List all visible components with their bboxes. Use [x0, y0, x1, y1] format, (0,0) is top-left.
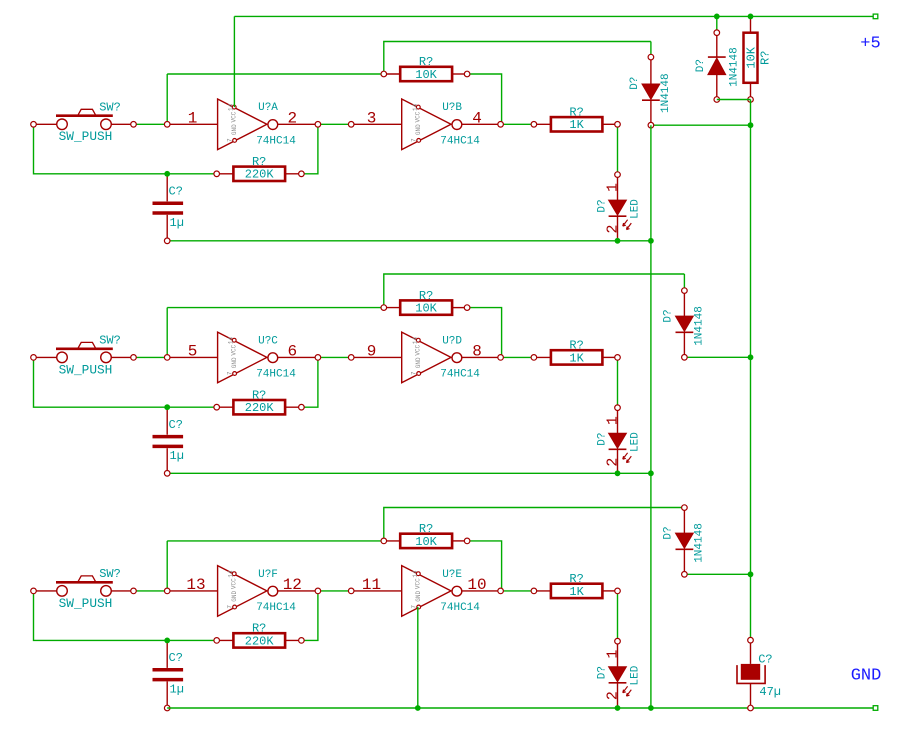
junction +5 rail / diode column	[714, 14, 720, 20]
svg-text:10K: 10K	[415, 302, 437, 316]
capacitor C? 1µ row3	[153, 640, 184, 710]
wire row1: diode D? bottom to right bus	[651, 124, 751, 126]
svg-text:10K: 10K	[415, 535, 437, 549]
wire vertical bus (LED cathode bus)	[650, 125, 652, 708]
junction row1: RC node	[164, 171, 170, 177]
svg-text:C?: C?	[758, 653, 772, 667]
svg-text:U?B: U?B	[442, 102, 462, 114]
junction row2: diode bottom to right bus	[748, 354, 754, 360]
junction row3: diode bottom to right bus	[748, 571, 754, 577]
junction +5 rail / 10K column	[748, 14, 754, 20]
svg-text:14: 14	[412, 103, 419, 111]
resistor R? 220K row3	[214, 622, 304, 649]
svg-text:VCC: VCC	[415, 111, 422, 122]
pin number 1 (LED row1 anode)	[605, 183, 622, 192]
pin number 2 (LED row1 cathode)	[605, 224, 622, 233]
pin number 1 (LED row3 anode)	[605, 650, 622, 659]
svg-text:2: 2	[287, 109, 297, 127]
wire U?E GND pin to GND rail	[417, 607, 419, 708]
svg-text:+5: +5	[860, 35, 880, 54]
diode D? 1N4148 row2 (steering)	[662, 288, 705, 360]
svg-text:1: 1	[188, 109, 198, 127]
svg-text:2: 2	[605, 224, 622, 233]
inverter U?D 74HC14	[348, 332, 503, 383]
wire +5 rail	[234, 15, 875, 17]
svg-text:2: 2	[605, 691, 622, 700]
svg-text:SW?: SW?	[99, 334, 121, 348]
svg-text:LED: LED	[630, 199, 642, 219]
wire row1: 10K right pin to gate2 output node	[467, 74, 502, 124]
capacitor C? 47µ (electrolytic)	[737, 637, 781, 710]
svg-text:GND: GND	[231, 591, 238, 602]
svg-text:C?: C?	[169, 651, 183, 665]
resistor R? 10K row1	[381, 55, 470, 82]
inverter U?F 74HC14	[164, 566, 320, 617]
pin number 3 (U?B input)	[367, 109, 377, 127]
svg-text:74HC14: 74HC14	[440, 136, 480, 148]
LED D? row2	[597, 405, 642, 473]
svg-text:U?E: U?E	[442, 569, 462, 581]
svg-text:R?: R?	[758, 51, 772, 65]
wire GND rail	[167, 707, 875, 709]
wire vertical bus (diode bus)	[750, 125, 752, 640]
svg-text:U?A: U?A	[258, 102, 278, 114]
wire row1: feedback line down to diode D? top	[650, 42, 652, 58]
label GND	[851, 667, 882, 686]
svg-text:74HC14: 74HC14	[256, 369, 296, 381]
diode D? 1N4148 row3 (steering)	[662, 505, 705, 577]
svg-text:7: 7	[226, 138, 233, 142]
svg-text:1µ: 1µ	[170, 449, 184, 463]
svg-text:74HC14: 74HC14	[440, 602, 480, 614]
svg-text:1µ: 1µ	[170, 682, 184, 696]
svg-text:7: 7	[410, 371, 417, 375]
wire row2: diode D? bottom to right bus	[684, 356, 750, 358]
svg-text:D?: D?	[597, 199, 609, 212]
svg-text:D?: D?	[629, 77, 641, 90]
svg-text:14: 14	[412, 337, 419, 345]
svg-text:GND: GND	[415, 124, 422, 135]
svg-text:SW_PUSH: SW_PUSH	[59, 129, 113, 144]
svg-text:1N4148: 1N4148	[693, 523, 705, 563]
svg-text:7: 7	[410, 605, 417, 609]
resistor R? 1K row2	[531, 339, 620, 366]
svg-text:1N4148: 1N4148	[693, 306, 705, 346]
wire row3: gate1 output to gate2 input	[318, 590, 351, 592]
svg-text:14: 14	[412, 570, 419, 578]
svg-text:1K: 1K	[569, 585, 584, 599]
svg-text:SW_PUSH: SW_PUSH	[59, 596, 113, 611]
svg-text:47µ: 47µ	[759, 685, 781, 699]
svg-text:GND: GND	[851, 667, 882, 686]
svg-text:U?F: U?F	[258, 569, 278, 581]
junction row1: diode bottom to right bus	[748, 122, 754, 128]
wire row1: gate1 output to gate2 input	[318, 123, 351, 125]
svg-text:C?: C?	[169, 418, 183, 432]
svg-text:6: 6	[287, 342, 297, 360]
svg-text:1: 1	[605, 183, 622, 192]
svg-text:14: 14	[228, 103, 235, 111]
resistor R? 1K row3	[531, 572, 620, 599]
LED D? row3	[597, 638, 642, 708]
svg-text:U?C: U?C	[258, 335, 278, 347]
svg-text:10K: 10K	[415, 68, 437, 82]
pin number 9 (U?D input)	[367, 342, 377, 360]
svg-text:2: 2	[605, 458, 622, 467]
svg-text:D?: D?	[597, 432, 609, 445]
wire row2: RC node to 220K left pin	[167, 406, 217, 408]
svg-text:3: 3	[367, 109, 377, 127]
wire row1: 10K left pin to diode feedback line	[384, 42, 651, 75]
svg-text:SW?: SW?	[99, 101, 121, 115]
diode D? 1N4148 (to +5 rail)	[695, 30, 741, 102]
svg-text:9: 9	[367, 342, 377, 360]
wire +5 rail to diode D? (pullup column)	[716, 16, 718, 32]
pin number 1 (LED row2 anode)	[605, 416, 622, 425]
svg-text:7: 7	[226, 371, 233, 375]
label +5	[860, 35, 880, 54]
svg-text:74HC14: 74HC14	[256, 602, 296, 614]
wire row2: 220K right pin up to output node	[301, 357, 318, 407]
svg-text:1: 1	[605, 416, 622, 425]
svg-text:SW_PUSH: SW_PUSH	[59, 362, 113, 377]
svg-text:1N4148: 1N4148	[660, 73, 672, 113]
svg-text:220K: 220K	[245, 168, 275, 182]
resistor R? 10K row3	[381, 522, 470, 549]
svg-text:D?: D?	[662, 526, 674, 539]
LED D? row1	[597, 172, 642, 241]
svg-text:14: 14	[228, 337, 235, 345]
pin number 12 (U?F output)	[283, 576, 302, 594]
junction GND rail / U?E GND	[415, 705, 421, 711]
pin number 11 (U?E input)	[362, 576, 381, 594]
svg-text:LED: LED	[630, 432, 642, 452]
switch SW? SW_PUSH row1	[31, 101, 137, 145]
wire row1: 10K row horizontal to 10K left pin	[167, 73, 384, 75]
svg-text:D?: D?	[662, 309, 674, 322]
wire row1: 220K right pin up to output node	[301, 124, 318, 174]
svg-text:10K: 10K	[744, 46, 758, 68]
wire row2: switch output to gate input	[134, 356, 168, 358]
resistor R? 1K row1	[531, 106, 620, 133]
svg-text:74HC14: 74HC14	[440, 369, 480, 381]
inverter U?A 74HC14	[164, 99, 320, 150]
svg-text:1K: 1K	[569, 118, 584, 132]
pin number 2 (LED row2 cathode)	[605, 458, 622, 467]
pin number 5 (U?C input)	[188, 342, 198, 360]
wire row3: 220K right pin up to output node	[301, 591, 318, 641]
svg-text:5: 5	[188, 342, 198, 360]
wire row1: gate2 output to 1K left pin	[501, 123, 534, 125]
junction row3: LED to rail	[615, 705, 621, 711]
svg-text:D?: D?	[695, 59, 707, 72]
wire row1: RC node to 220K left pin	[167, 173, 217, 175]
svg-text:GND: GND	[415, 357, 422, 368]
wire row2: feedback line down to diode D? top	[683, 274, 685, 291]
wire +5 rail end	[873, 14, 878, 19]
inverter U?E 74HC14	[348, 566, 503, 617]
wire row3: switch output to gate input	[134, 590, 168, 592]
junction row1: rail to vertical bus	[648, 238, 654, 244]
switch SW? SW_PUSH row3	[31, 567, 137, 611]
wire row3: gate2 output to 1K left pin	[501, 590, 534, 592]
resistor R? 10K (vertical, to +5)	[744, 16, 773, 102]
wire row1: bottom rail	[167, 240, 651, 242]
svg-text:13: 13	[186, 576, 205, 594]
wire row3: gate input node up to 10K row	[166, 541, 168, 591]
svg-text:VCC: VCC	[415, 578, 422, 589]
svg-text:VCC: VCC	[415, 344, 422, 355]
svg-text:GND: GND	[231, 124, 238, 135]
svg-text:GND: GND	[231, 357, 238, 368]
wire row2: gate2 output to 1K left pin	[501, 356, 534, 358]
svg-text:220K: 220K	[245, 634, 275, 648]
wire row2: 10K right pin to gate2 output node	[467, 308, 502, 358]
svg-text:1: 1	[605, 650, 622, 659]
svg-text:VCC: VCC	[231, 111, 238, 122]
pin number 6 (U?C output)	[287, 342, 297, 360]
resistor R? 10K row2	[381, 289, 470, 316]
svg-text:14: 14	[228, 570, 235, 578]
junction row2: LED to rail	[615, 470, 621, 476]
svg-text:VCC: VCC	[231, 344, 238, 355]
svg-text:10: 10	[467, 576, 486, 594]
svg-text:SW?: SW?	[99, 567, 121, 581]
wire row1: switch left to RC node	[34, 124, 168, 174]
pin number 4 (U?B output)	[472, 109, 482, 127]
svg-text:1µ: 1µ	[170, 216, 184, 230]
wire row3: switch left to RC node	[34, 591, 168, 641]
svg-text:C?: C?	[169, 185, 183, 199]
wire row3: 1K right pin down to LED	[617, 591, 619, 641]
junction row1: LED to rail	[615, 238, 621, 244]
svg-text:7: 7	[226, 605, 233, 609]
wire row1: gate input node up to 10K row	[166, 74, 168, 124]
svg-text:U?D: U?D	[442, 335, 462, 347]
svg-text:1N4148: 1N4148	[728, 47, 740, 87]
svg-text:4: 4	[472, 109, 482, 127]
wire GND rail end	[873, 706, 878, 711]
svg-text:GND: GND	[415, 591, 422, 602]
wire row1: 1K right pin down to LED	[617, 124, 619, 174]
wire row2: 10K row horizontal to 10K left pin	[167, 307, 384, 309]
wire row3: 10K right pin to gate2 output node	[467, 541, 502, 591]
wire row2: 10K left pin to diode feedback line	[384, 274, 685, 308]
svg-text:1K: 1K	[569, 351, 584, 365]
svg-text:220K: 220K	[245, 401, 275, 415]
inverter U?B 74HC14	[348, 99, 503, 150]
pin number 1 (U?A input)	[188, 109, 198, 127]
pin number 13 (U?F input)	[186, 576, 205, 594]
junction GND rail / vertical bus	[648, 705, 654, 711]
svg-text:8: 8	[472, 342, 482, 360]
wire row3: 10K row horizontal to 10K left pin	[167, 540, 384, 542]
wire row1: switch output to gate input	[134, 123, 168, 125]
junction row3: RC node	[164, 638, 170, 644]
junction row2: RC node	[164, 404, 170, 410]
wire row3: diode D? bottom to right bus	[684, 573, 750, 575]
diode D? 1N4148 row1 (steering)	[629, 54, 672, 128]
wire row2: gate input node up to 10K row	[166, 308, 168, 358]
wire row3: RC node to 220K left pin	[167, 639, 217, 641]
svg-text:74HC14: 74HC14	[256, 136, 296, 148]
junction row2: rail to vertical bus	[648, 470, 654, 476]
svg-text:7: 7	[410, 138, 417, 142]
wire row2: bottom rail	[167, 472, 651, 474]
svg-text:11: 11	[362, 576, 381, 594]
wire row2: 1K right pin down to LED	[617, 357, 619, 407]
resistor R? 220K row1	[214, 155, 304, 182]
pin number 10 (U?E output)	[467, 576, 486, 594]
wire 10K bottom down to bus	[750, 100, 752, 126]
svg-text:LED: LED	[630, 665, 642, 685]
wire row3: 10K left pin to diode feedback line	[384, 508, 685, 541]
pin number 8 (U?D output)	[472, 342, 482, 360]
pin number 2 (U?A output)	[287, 109, 297, 127]
svg-text:D?: D?	[597, 666, 609, 679]
resistor R? 220K row2	[214, 388, 304, 415]
capacitor C? 1µ row1	[153, 174, 184, 244]
wire +5 rail to U?A VCC pin	[233, 16, 235, 107]
wire row2: switch left to RC node	[34, 357, 168, 407]
wire row2: gate1 output to gate2 input	[318, 356, 351, 358]
svg-text:12: 12	[283, 576, 302, 594]
switch SW? SW_PUSH row2	[31, 334, 137, 378]
capacitor C? 1µ row2	[153, 407, 184, 476]
pin number 2 (LED row3 cathode)	[605, 691, 622, 700]
wire diode bottom to 10K bottom	[717, 99, 751, 101]
inverter U?C 74HC14	[164, 332, 320, 383]
svg-text:VCC: VCC	[231, 578, 238, 589]
